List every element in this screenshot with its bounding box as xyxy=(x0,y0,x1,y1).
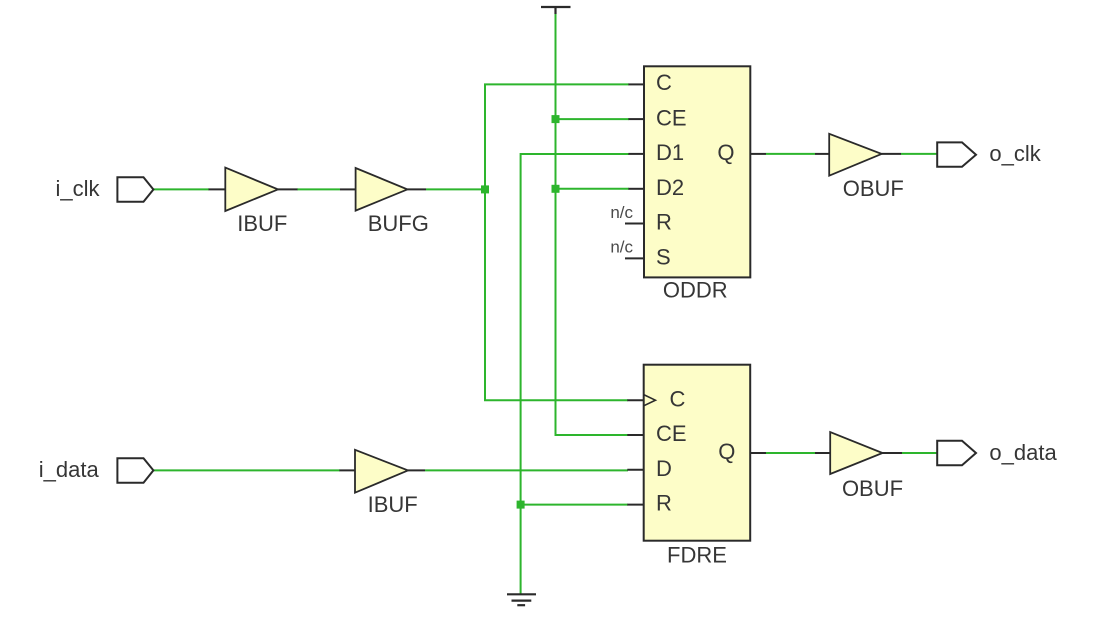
svg-text:IBUF: IBUF xyxy=(368,492,418,517)
pin stub IBUF data input xyxy=(339,469,356,471)
svg-text:R: R xyxy=(656,210,672,235)
wire clk: BUFG to junction xyxy=(426,188,485,190)
buffer OBUF (data) xyxy=(830,432,882,474)
pin stub ODDR D1 xyxy=(628,153,644,155)
svg-text:i_data: i_data xyxy=(39,457,100,482)
pin stub IBUF data output xyxy=(408,469,425,471)
pin stub ODDR D2 xyxy=(628,188,644,190)
wire gnd vertical from ODDR D1 to ground xyxy=(521,154,629,594)
block ODDR body xyxy=(644,66,750,277)
wire data: i_data port to IBUF xyxy=(154,469,340,471)
svg-text:i_clk: i_clk xyxy=(56,176,101,201)
svg-text:D2: D2 xyxy=(656,175,684,200)
junction vcc/ODDR-D2 xyxy=(552,185,560,193)
wire data: IBUF to FDRE D xyxy=(425,469,628,471)
wire clk: IBUF to BUFG xyxy=(297,188,340,190)
pin stub IBUF clk input xyxy=(209,188,227,190)
wire vcc vertical to FDRE CE xyxy=(556,14,629,435)
buffer IBUF (data) xyxy=(355,450,408,493)
svg-text:CE: CE xyxy=(656,105,687,130)
input port i_clk xyxy=(117,177,153,202)
pin stub OBUF clk output xyxy=(882,153,901,155)
svg-text:Q: Q xyxy=(717,140,734,165)
pin stub FDRE C xyxy=(627,399,643,401)
pin stub OBUF data input xyxy=(815,452,831,454)
pin stub FDRE CE xyxy=(627,434,643,436)
pin stub ODDR CE xyxy=(628,118,644,120)
pin stub FDRE Q xyxy=(750,452,766,454)
svg-text:IBUF: IBUF xyxy=(237,211,287,236)
output port o_clk xyxy=(937,142,976,166)
vcc symbol xyxy=(541,7,571,14)
svg-text:S: S xyxy=(656,245,671,270)
junction vcc/ODDR-CE xyxy=(552,115,560,123)
wire clk: i_clk port to IBUF xyxy=(153,188,209,190)
ground xyxy=(507,594,536,605)
wire vcc branch to ODDR D2 xyxy=(556,188,630,190)
junction gnd/FDRE-R xyxy=(517,501,525,509)
svg-text:OBUF: OBUF xyxy=(843,176,904,201)
pin stub ODDR C xyxy=(628,83,644,85)
svg-text:n/c: n/c xyxy=(610,203,633,222)
wire OBUF to o_data port xyxy=(902,452,937,454)
svg-text:R: R xyxy=(656,491,672,516)
wire gnd branch to FDRE R xyxy=(521,504,628,506)
pin stub BUFG input xyxy=(340,188,356,190)
junction clk xyxy=(481,185,489,193)
svg-text:D1: D1 xyxy=(656,140,684,165)
svg-text:n/c: n/c xyxy=(610,238,633,257)
clock wedge FDRE C xyxy=(644,395,656,406)
wire clk vertical with ODDR C branch and FDRE C branch xyxy=(485,84,629,400)
pin stub ODDR Q xyxy=(750,153,766,155)
buffer OBUF (clock) xyxy=(829,134,881,176)
svg-text:D: D xyxy=(656,456,672,481)
wire OBUF to o_clk port xyxy=(901,153,937,155)
svg-text:FDRE: FDRE xyxy=(667,542,727,567)
svg-text:o_clk: o_clk xyxy=(989,141,1041,166)
block FDRE body xyxy=(644,365,751,541)
pin stub BUFG output xyxy=(407,188,426,190)
buffer IBUF (clock) xyxy=(225,168,278,211)
pin stub FDRE R xyxy=(627,504,643,506)
pin stub OBUF clk input xyxy=(815,153,830,155)
pin stub OBUF data output xyxy=(883,452,903,454)
svg-text:o_data: o_data xyxy=(989,440,1057,465)
svg-text:CE: CE xyxy=(656,421,687,446)
svg-text:BUFG: BUFG xyxy=(368,211,429,236)
svg-text:ODDR: ODDR xyxy=(663,278,728,303)
wire ODDR Q to OBUF xyxy=(766,153,815,155)
wire FDRE Q to OBUF xyxy=(766,452,815,454)
buffer BUFG xyxy=(356,168,408,211)
pin stub ODDR S (n/c) xyxy=(625,257,644,259)
svg-text:C: C xyxy=(656,70,672,95)
svg-text:C: C xyxy=(670,386,686,411)
pin stub IBUF clk output xyxy=(278,188,298,190)
pin stub FDRE D xyxy=(627,469,643,471)
svg-text:OBUF: OBUF xyxy=(842,476,903,501)
output port o_data xyxy=(937,441,976,465)
pin stub ODDR R (n/c) xyxy=(625,223,644,225)
wire vcc branch to ODDR CE xyxy=(556,118,630,120)
svg-text:Q: Q xyxy=(718,439,735,464)
input port i_data xyxy=(117,458,153,483)
